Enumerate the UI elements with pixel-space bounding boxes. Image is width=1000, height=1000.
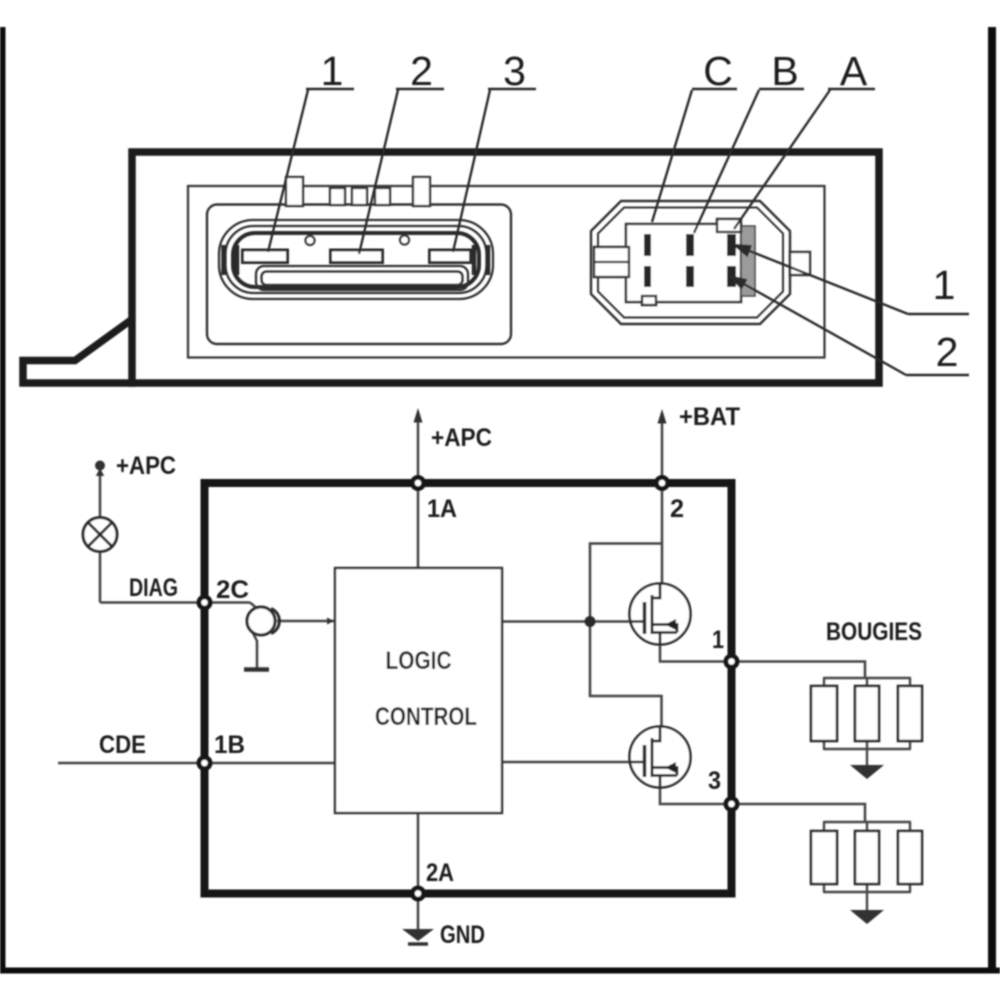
svg-text:1: 1 [321,48,344,94]
svg-text:3: 3 [503,48,526,94]
svg-text:CONTROL: CONTROL [375,703,477,731]
svg-text:2C: 2C [216,576,249,604]
svg-text:GND: GND [440,921,485,949]
svg-text:+APC: +APC [431,424,492,452]
svg-text:B: B [771,48,798,94]
svg-text:2A: 2A [426,859,454,887]
svg-text:2: 2 [670,495,684,523]
svg-text:CDE: CDE [99,731,146,759]
svg-text:1A: 1A [427,495,457,523]
svg-text:A: A [840,48,868,94]
svg-text:C: C [703,48,733,94]
svg-text:1: 1 [933,262,956,308]
svg-text:LOGIC: LOGIC [386,647,452,675]
svg-text:+APC: +APC [116,452,176,480]
svg-text:1B: 1B [214,731,245,759]
svg-text:3: 3 [708,767,721,795]
svg-text:DIAG: DIAG [129,574,178,602]
svg-text:BOUGIES: BOUGIES [826,618,922,646]
svg-text:1: 1 [712,626,724,654]
svg-text:+BAT: +BAT [679,403,740,431]
svg-text:2: 2 [410,48,433,94]
svg-text:2: 2 [936,329,959,375]
